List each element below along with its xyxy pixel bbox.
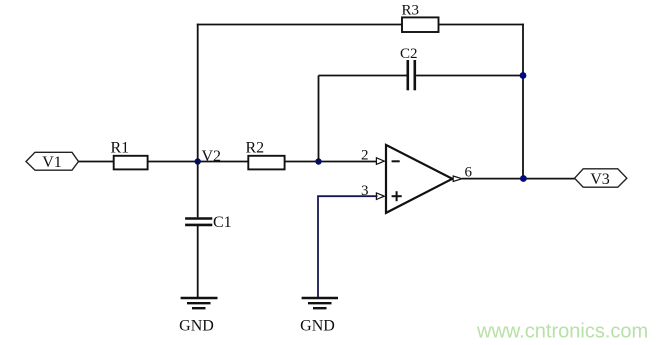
wire: right feedback vertical [522,24,524,179]
wire: C1 to ground [197,226,199,297]
wire: C2 right segment [416,75,523,77]
svg-text:V2: V2 [202,148,222,165]
wire: R3 to top right corner [439,24,524,26]
net label V1 [26,152,79,171]
node V2 junction [195,158,201,164]
junction: inverting input node [315,158,321,164]
wire: C2 left segment [319,75,407,77]
wire: inverting node up to C2 [318,76,320,162]
svg-text:V3: V3 [590,171,610,188]
resistor R3 [402,17,439,32]
svg-text:GND: GND [179,318,214,335]
svg-text:2: 2 [361,147,369,163]
capacitor C1 [185,219,212,225]
wire: op-amp output to V3 [462,178,575,180]
svg-text:R1: R1 [111,140,130,157]
resistor R2 [248,156,284,170]
svg-text:R3: R3 [402,3,420,19]
capacitor C2 [408,60,415,90]
net label V3 [575,169,627,188]
wire: R1 to R2 [148,161,249,163]
svg-text:V1: V1 [42,154,62,171]
resistor R1 [114,156,148,170]
wire: R2 to op-amp pin 2 [285,161,378,163]
wire: V2 node down to C1 [197,162,199,218]
ground symbol left (GND) [181,298,218,308]
junction: output node [520,175,527,182]
svg-text:www.cntronics.com: www.cntronics.com [476,321,648,343]
wire: V1 to R1 [78,161,114,163]
svg-text:R2: R2 [246,140,265,157]
junction: C2 / feedback node [520,72,527,79]
op-amp U1 [376,145,462,213]
wire: top feedback left segment [197,24,402,26]
svg-text:C1: C1 [213,214,232,231]
ground symbol right (GND) [302,298,338,308]
wire: pin 3 to ground [318,196,378,297]
wire: V2 node up to top feedback [197,24,199,162]
svg-text:GND: GND [300,318,335,335]
svg-text:C2: C2 [400,46,418,62]
